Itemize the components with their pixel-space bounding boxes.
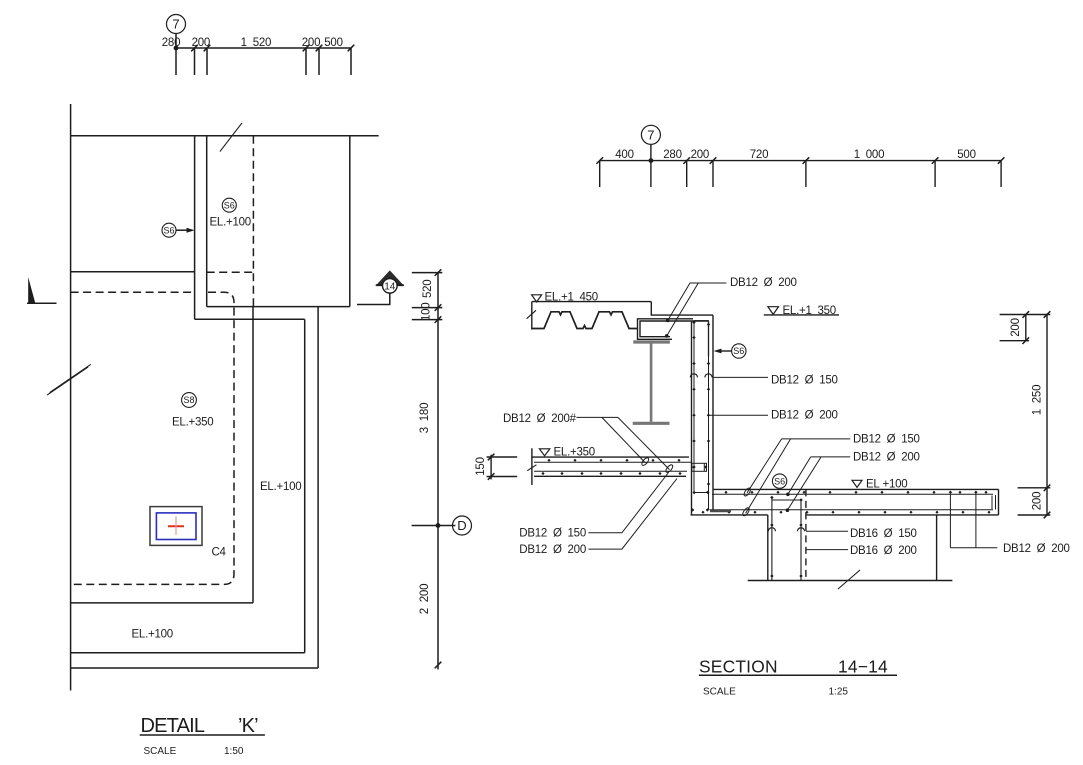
slab left edge	[531, 448, 533, 485]
right dimension inner vertical (200)	[1025, 315, 1027, 341]
upper wall right face	[206, 136, 208, 307]
slab edge vertical (EL+100 boundary)	[252, 307, 254, 603]
grid line below bubble 7	[175, 34, 177, 76]
U-bar below footing right	[950, 494, 997, 547]
steel I-beam top flange	[633, 340, 670, 343]
grid bubble D	[453, 516, 472, 535]
grid bubble 7 (plan)	[167, 15, 186, 34]
svg-text:SECTION: SECTION	[699, 657, 778, 677]
svg-text:280: 280	[663, 149, 681, 161]
leader DB12@200 footing corner	[787, 457, 850, 510]
plan top wall line	[71, 135, 379, 137]
lower wall west face	[304, 319, 306, 653]
svg-text:DB12 Ø 150: DB12 Ø 150	[771, 375, 838, 387]
dashed line left of wall	[71, 291, 195, 293]
wall starter bar top	[694, 321, 709, 357]
footing end bar hook	[992, 495, 996, 510]
wall rebar line 1	[694, 321, 709, 493]
leader DB16@200	[807, 549, 849, 551]
grid bubble 7 (section)	[641, 125, 660, 144]
svg-text:1 250: 1 250	[1032, 385, 1044, 415]
leader DB12@150 slab bottom (left label)	[588, 473, 668, 533]
dashed foundation edge with rounded corners	[71, 292, 234, 584]
dimension line top of plan	[176, 47, 351, 49]
ground line break slash	[838, 570, 860, 589]
leader end loops	[743, 487, 752, 497]
svg-text:D: D	[457, 518, 466, 533]
title underline SECTION 14-14	[699, 674, 897, 676]
section marker 14: triangle	[377, 272, 402, 286]
EL.+350 with level triangle	[539, 449, 549, 456]
wall rebar line 2	[708, 321, 710, 510]
svg-text:3 180: 3 180	[419, 403, 431, 433]
hidden (dashed) line inside big rectangle	[252, 136, 254, 306]
EL+1450 level line	[532, 301, 652, 303]
bottom wall south face	[71, 667, 319, 669]
footing bottom rebar	[709, 509, 993, 511]
parapet step	[651, 302, 713, 316]
leader end loops	[641, 457, 650, 467]
column symbol C4 inner blue rectangle	[156, 513, 196, 540]
svg-text:DB12 Ø 200#: DB12 Ø 200#	[503, 413, 577, 425]
section marker 14 leader	[357, 293, 390, 304]
ground line	[748, 580, 953, 582]
svg-text:1:50: 1:50	[224, 746, 244, 757]
EL +100 with level triangle	[852, 480, 862, 487]
S6 bubble (section)	[732, 344, 746, 358]
EL.+1 450 with level triangle	[532, 295, 542, 302]
svg-text:EL.+100: EL.+100	[132, 629, 173, 641]
svg-text:DB16 Ø 200: DB16 Ø 200	[850, 545, 917, 557]
pedestal right face	[936, 515, 938, 581]
grid line below bubble 7	[650, 144, 652, 187]
dimension tick slashes	[191, 45, 354, 52]
EL+350 slab bottom	[534, 475, 686, 477]
column bar dots	[770, 496, 803, 578]
svg-text:200: 200	[1010, 318, 1022, 336]
lap splice bar at wall base	[710, 510, 731, 512]
column hidden face dashed	[805, 489, 807, 580]
svg-text:7: 7	[647, 127, 654, 142]
svg-text:’K’: ’K’	[238, 715, 258, 737]
EL+350 slab top rebar	[534, 461, 692, 463]
column left face	[767, 515, 769, 581]
column symbol C4 outer rectangle	[150, 507, 202, 546]
svg-text:280: 280	[162, 37, 180, 49]
plan left cut line	[70, 104, 72, 691]
svg-text:7: 7	[172, 17, 179, 32]
dimension tick slashes	[596, 157, 1004, 164]
svg-text:EL.+1 450: EL.+1 450	[545, 292, 598, 304]
svg-text:1 000: 1 000	[854, 149, 884, 161]
column bar left	[771, 498, 773, 581]
150 dim extension lines	[487, 457, 518, 477]
svg-text:150: 150	[475, 457, 487, 475]
steel I-beam bottom flange	[633, 422, 670, 425]
right dim node dot at grid D	[436, 523, 441, 528]
step line at wall base	[195, 318, 305, 320]
dimension extension verticals	[600, 161, 1001, 187]
svg-text:EL.+100: EL.+100	[260, 481, 301, 493]
title underline DETAIL 'K'	[140, 734, 265, 736]
svg-text:520: 520	[422, 280, 434, 298]
leader DB12@200 wall	[707, 414, 768, 416]
filled wedge marker at far left	[28, 277, 35, 303]
slab edge horizontal	[71, 602, 253, 604]
S6 bubble upper	[222, 198, 236, 212]
S8 bubble	[182, 393, 197, 408]
S6 leader arrow	[176, 229, 192, 231]
EL+350 slab bottom rebar	[534, 470, 687, 472]
leader DB12@200 slab bottom (left label)	[588, 479, 677, 550]
svg-text:200: 200	[1032, 492, 1044, 510]
dimension node dot at grid 7	[174, 46, 179, 51]
column centre red cross vertical	[175, 516, 177, 535]
svg-text:1 520: 1 520	[241, 37, 271, 49]
column lap splice arcs	[768, 528, 804, 532]
S6 bubble left	[162, 223, 176, 237]
deck left edge	[531, 302, 533, 330]
lower wall east face	[317, 307, 319, 668]
S6 arrow	[717, 350, 732, 352]
wall rebar section dots	[692, 321, 710, 486]
svg-text:DB16 Ø 150: DB16 Ø 150	[850, 528, 917, 540]
150 dim ticks	[488, 454, 495, 480]
svg-text:SCALE: SCALE	[703, 687, 736, 698]
right dim ticks	[435, 269, 442, 668]
svg-text:EL.+1 350: EL.+1 350	[783, 305, 836, 317]
big rectangle right edge	[349, 136, 351, 307]
wall rebar lap splice arcs	[690, 374, 712, 378]
left wing wall line	[71, 271, 195, 273]
metal deck profile	[533, 312, 638, 329]
svg-text:DB12 Ø 200: DB12 Ø 200	[771, 410, 838, 422]
column bar right	[800, 500, 802, 581]
svg-text:400: 400	[615, 149, 633, 161]
svg-text:200: 200	[691, 149, 709, 161]
leader end dots	[786, 493, 790, 497]
svg-text:DB12 Ø 200: DB12 Ø 200	[730, 277, 797, 289]
svg-text:S6: S6	[733, 346, 744, 356]
footing bottom	[691, 514, 999, 516]
break symbol on left cut line	[47, 364, 91, 395]
concrete topping edge channel	[638, 319, 710, 340]
section marker 14: circle	[383, 279, 398, 294]
svg-text:DETAIL: DETAIL	[141, 715, 205, 737]
parapet inner face	[691, 321, 693, 515]
right dim extension lines	[1000, 315, 1051, 516]
svg-text:14: 14	[384, 282, 396, 293]
svg-text:S8: S8	[183, 395, 194, 405]
break tick on deck left edge	[527, 310, 536, 318]
EL.+1 350 with level triangle	[768, 307, 779, 315]
leader DB12@150 footing corner	[746, 439, 851, 513]
footing top EL+100	[713, 488, 999, 490]
svg-text:C4: C4	[212, 547, 227, 559]
svg-text:DB12 Ø 200: DB12 Ø 200	[1003, 543, 1070, 555]
svg-text:DB12 Ø 150: DB12 Ø 150	[853, 434, 920, 446]
svg-text:EL +100: EL +100	[866, 479, 907, 491]
wedge base line	[27, 302, 57, 304]
big rectangle bottom edge	[207, 306, 350, 308]
leader DB12@150 wall	[713, 376, 768, 378]
svg-text:100: 100	[421, 303, 433, 321]
EL+350 slab top	[532, 456, 689, 458]
break slash on upper wall	[220, 123, 242, 152]
dimension extension verticals	[195, 48, 352, 75]
svg-text:EL.+350: EL.+350	[172, 417, 213, 429]
150 dim vertical	[490, 455, 492, 480]
parapet outer face	[712, 315, 714, 510]
leader DB12@200#	[576, 417, 669, 469]
leader end dots	[666, 319, 670, 323]
footing rebar dots top	[701, 491, 990, 514]
right dim ticks	[1023, 311, 1051, 518]
svg-text:SCALE: SCALE	[144, 746, 177, 757]
break tick on slab edge	[527, 465, 536, 471]
footing right edge	[998, 489, 1000, 515]
svg-text:500: 500	[324, 37, 342, 49]
dimension node dot at grid 7	[649, 158, 654, 163]
EL+1350 underline	[764, 314, 839, 316]
svg-text:2 200: 2 200	[419, 584, 431, 614]
svg-text:S6: S6	[224, 200, 235, 210]
svg-text:1:25: 1:25	[829, 687, 849, 698]
leader DB16@150	[806, 530, 848, 532]
dashed ledge line inside rectangle	[207, 271, 254, 273]
svg-text:S6: S6	[163, 225, 174, 235]
right dimension line vertical	[437, 273, 439, 670]
column centre red cross horizontal	[168, 525, 184, 527]
U-bar dots	[949, 491, 978, 494]
bottom wall north face	[71, 652, 305, 654]
svg-text:500: 500	[957, 149, 975, 161]
svg-text:EL.+350: EL.+350	[554, 447, 595, 459]
footing top rebar	[712, 493, 993, 495]
slab rebar dots top	[541, 459, 681, 475]
S6 bubble footing	[772, 474, 786, 488]
svg-text:EL.+100: EL.+100	[210, 217, 251, 229]
column bar bend	[772, 499, 803, 501]
leader DB12@200 top	[667, 283, 727, 336]
svg-text:720: 720	[750, 149, 768, 161]
svg-text:200: 200	[302, 37, 320, 49]
svg-text:DB12 Ø 200: DB12 Ø 200	[519, 544, 586, 556]
dimension line top of section	[600, 160, 1001, 162]
right dim extension lines	[412, 273, 456, 526]
svg-text:DB12 Ø 200: DB12 Ø 200	[853, 452, 920, 464]
svg-text:14−14: 14−14	[838, 657, 888, 677]
svg-text:DB12 Ø 150: DB12 Ø 150	[519, 528, 586, 540]
svg-text:200: 200	[192, 37, 210, 49]
steel I-beam web	[650, 343, 653, 422]
right dimension main vertical	[1046, 315, 1048, 516]
upper wall left face	[194, 136, 196, 319]
svg-text:S6: S6	[774, 476, 785, 486]
